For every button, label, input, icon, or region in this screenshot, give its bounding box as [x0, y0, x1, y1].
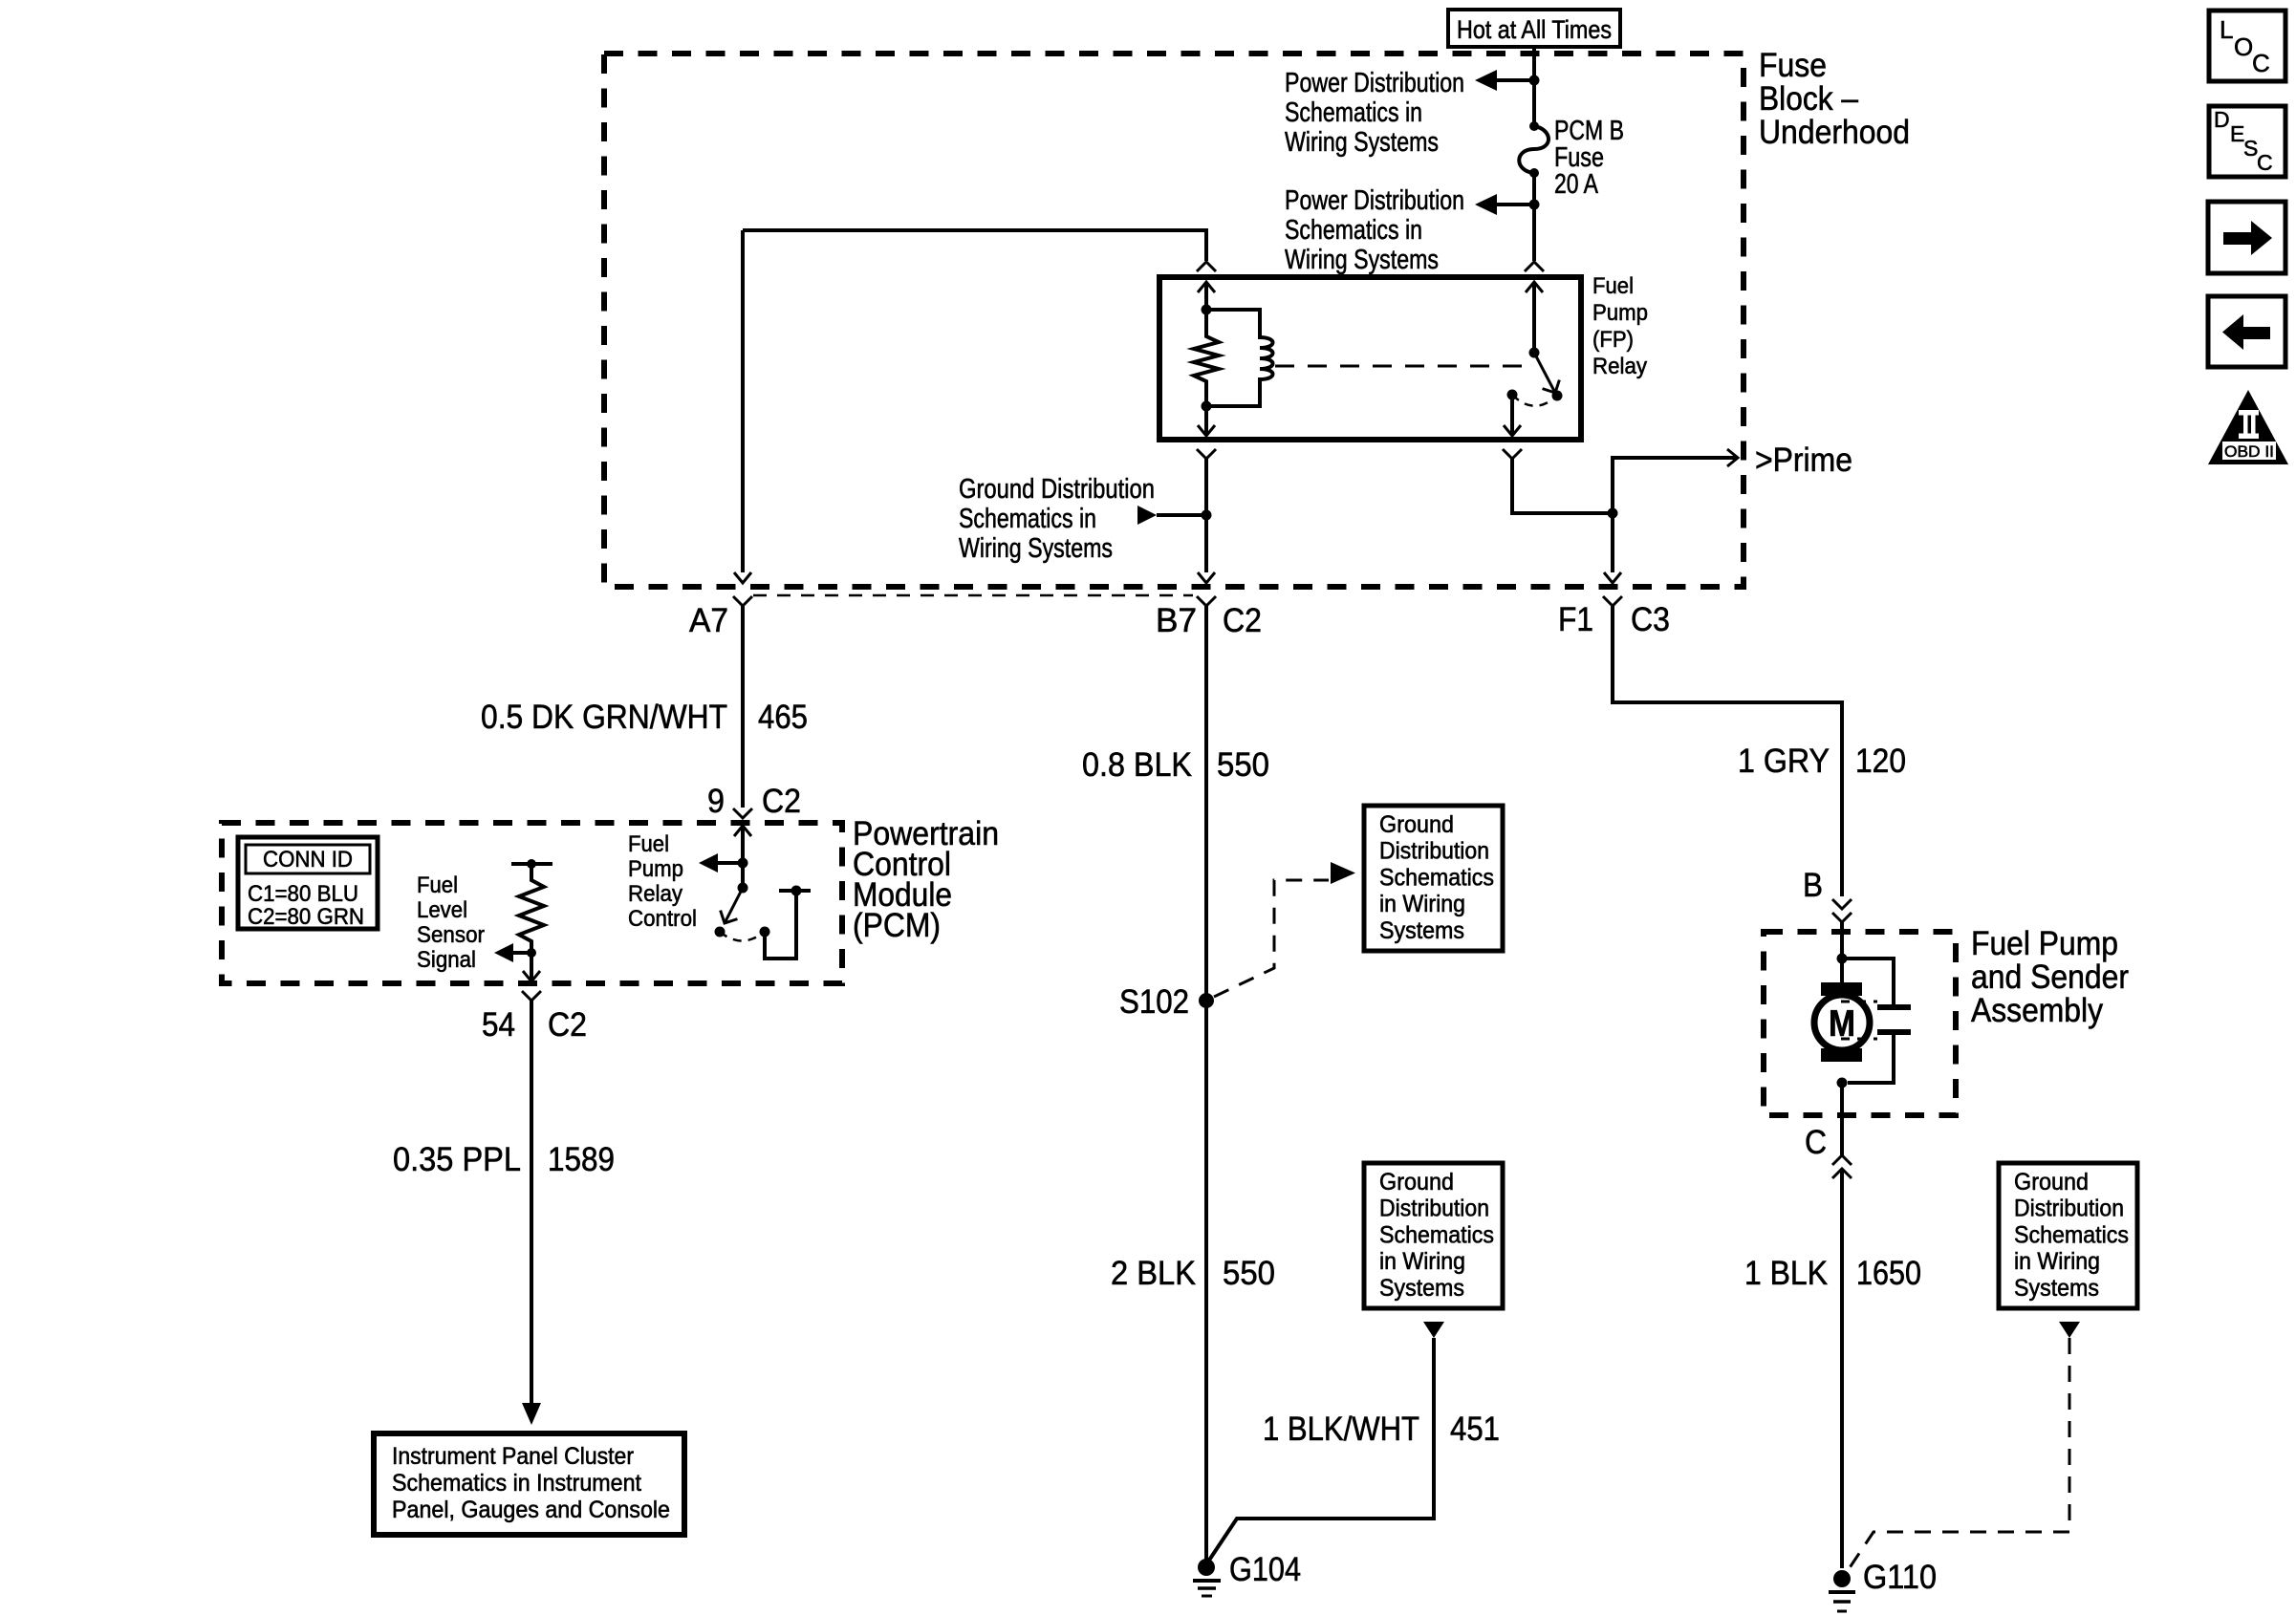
svg-text:S102: S102 — [1119, 983, 1189, 1021]
svg-text:1589: 1589 — [548, 1141, 615, 1178]
fuel level sensor top bar — [511, 859, 552, 869]
node relay contact right — [1552, 391, 1563, 401]
reference box Ground Distribution 3 — [1999, 1163, 2137, 1308]
svg-text:Fuel: Fuel — [417, 873, 458, 898]
reference box Ground Distribution 1 — [1364, 806, 1503, 951]
fuse block underhood dashed boundary — [604, 54, 1744, 587]
label Powertrain Control Module PCM — [853, 815, 999, 944]
relay contact dashed arc — [1512, 395, 1557, 406]
svg-text:C: C — [2257, 150, 2273, 175]
svg-text:(FP): (FP) — [1592, 327, 1634, 353]
wire 1650 BLK to G110 — [1840, 1169, 1844, 1568]
arrow from ground box 2 — [1423, 1322, 1444, 1338]
wire 120 GRY C3 to fuel pump — [1613, 606, 1842, 896]
fuse PCM B 20 A — [1519, 121, 1549, 178]
svg-text:C2: C2 — [762, 783, 801, 820]
wire to Fuel Level Sensor Signal label — [510, 951, 531, 955]
arrow to Power Distribution upper — [1475, 70, 1497, 91]
label Fuel Pump and Sender Assembly — [1971, 925, 2129, 1029]
svg-text:and Sender: and Sender — [1971, 959, 2129, 996]
pin 9 entry arrow inside PCM — [734, 826, 751, 888]
PCM dashed boundary — [222, 823, 842, 983]
svg-text:9: 9 — [707, 783, 725, 820]
wire prime tap — [1613, 449, 1738, 513]
wire prime junction to F1 — [1604, 513, 1621, 583]
svg-text:Signal: Signal — [417, 947, 476, 973]
svg-text:Block –: Block – — [1759, 80, 1858, 118]
svg-text:Relay: Relay — [1592, 354, 1647, 379]
wire A7 drop inside fuse block — [734, 230, 751, 583]
svg-text:Fuel: Fuel — [628, 831, 669, 857]
svg-text:550: 550 — [1223, 1255, 1275, 1292]
splice S102 — [1199, 993, 1214, 1008]
svg-text:2 BLK: 2 BLK — [1111, 1255, 1196, 1292]
connector chevron pin 54 — [522, 991, 541, 1001]
svg-text:Pump: Pump — [1592, 300, 1648, 326]
svg-text:550: 550 — [1217, 746, 1269, 784]
svg-text:A7: A7 — [689, 602, 728, 639]
dashed marks motor to capacitor — [1841, 1002, 1877, 1039]
svg-text:L: L — [2220, 15, 2233, 44]
svg-text:0.8 BLK: 0.8 BLK — [1082, 746, 1192, 784]
node fuel pump relay control — [738, 858, 748, 869]
icon OBD II triangle — [2208, 390, 2288, 464]
wire to Fuel Pump Relay Control label — [715, 861, 743, 865]
label Ground Distribution reference — [959, 474, 1155, 564]
relay coil exit arrow — [1198, 406, 1215, 436]
svg-text:0.5 DK GRN/WHT: 0.5 DK GRN/WHT — [481, 699, 727, 736]
svg-text:1 GRY: 1 GRY — [1738, 743, 1830, 780]
wire to Power Distribution upper — [1495, 78, 1534, 82]
node relay coil bottom — [1202, 401, 1212, 412]
svg-text:54: 54 — [482, 1006, 515, 1044]
svg-text:Instrument Panel Cluster: Instrument Panel Cluster — [392, 1443, 634, 1470]
svg-text:Underhood: Underhood — [1759, 114, 1910, 151]
node fuel pump motor top — [1837, 954, 1848, 964]
wire 465 to PCM — [741, 606, 745, 808]
node fuel level sensor signal — [527, 948, 536, 958]
connector A7 chevron — [733, 596, 752, 606]
svg-text:O: O — [2234, 32, 2253, 61]
value label PCM B Fuse 20 A — [1554, 116, 1624, 200]
svg-text:1 BLK/WHT: 1 BLK/WHT — [1263, 1411, 1419, 1448]
connector F1 C3 chevron — [1603, 596, 1622, 606]
svg-text:Power Distribution: Power Distribution — [1285, 68, 1464, 98]
PCM driver contact dashed arc — [720, 932, 765, 941]
svg-text:20 A: 20 A — [1554, 169, 1599, 200]
svg-text:F1: F1 — [1558, 601, 1593, 638]
svg-text:Schematics in Instrument: Schematics in Instrument — [392, 1470, 641, 1497]
relay switch common wire — [1526, 282, 1543, 353]
relay coil L1 — [1206, 310, 1273, 406]
motor M fuel pump — [1814, 982, 1870, 1062]
svg-text:1 BLK: 1 BLK — [1744, 1255, 1828, 1292]
label Fuel Pump (FP) Relay — [1592, 273, 1648, 379]
svg-text:OBD II: OBD II — [2224, 442, 2274, 461]
svg-text:G104: G104 — [1229, 1551, 1301, 1588]
relay switch blade — [1534, 353, 1564, 398]
label Power Distribution reference lower — [1285, 185, 1464, 275]
dashed leader ground box 3 to G110 — [1845, 1338, 2069, 1575]
node power junction upper — [1529, 75, 1540, 86]
svg-text:D: D — [2214, 107, 2230, 132]
svg-text:B: B — [1803, 867, 1823, 904]
svg-text:Schematics in: Schematics in — [1285, 97, 1422, 128]
arrow into ground box 1 — [1331, 862, 1355, 884]
reference box Instrument Panel Cluster — [374, 1433, 684, 1535]
PCM driver supply stub — [765, 886, 811, 959]
svg-text:Level: Level — [417, 897, 467, 923]
svg-text:(PCM): (PCM) — [853, 907, 941, 944]
svg-text:Assembly: Assembly — [1971, 992, 2103, 1029]
svg-text:C2: C2 — [548, 1006, 587, 1044]
svg-text:1650: 1650 — [1856, 1255, 1921, 1292]
connector C double chevron — [1832, 1155, 1852, 1178]
arrow from Ground Distribution reference — [1137, 506, 1157, 525]
icon DESC — [2209, 106, 2285, 177]
node power junction lower — [1529, 200, 1540, 210]
svg-text:Fuel: Fuel — [1592, 273, 1634, 299]
svg-text:Relay: Relay — [628, 881, 682, 907]
icon arrow right — [2208, 202, 2285, 273]
arrow to Fuel Level Sensor Signal label — [494, 943, 513, 962]
arrow into instrument cluster reference — [522, 1403, 541, 1425]
relay actuation dashed link — [1275, 365, 1529, 368]
connector C2 thin dashed line — [753, 594, 1193, 597]
svg-text:G110: G110 — [1863, 1559, 1937, 1596]
svg-text:Wiring Systems: Wiring Systems — [1285, 127, 1439, 158]
CONN ID table — [238, 837, 378, 930]
node PCM driver contact right — [760, 927, 770, 937]
svg-text:465: 465 — [758, 699, 808, 736]
node fuel pump motor bottom — [1837, 1078, 1848, 1088]
svg-text:Fuse: Fuse — [1759, 47, 1827, 84]
node PCM driver contact left — [715, 927, 726, 937]
wire fuse to relay — [1532, 173, 1536, 261]
svg-text:C1=80 BLU: C1=80 BLU — [248, 881, 358, 907]
svg-text:Control: Control — [628, 906, 697, 932]
capacitor C1 suppression — [1842, 959, 1911, 1083]
arrow to Fuel Pump Relay Control label — [699, 853, 718, 873]
connector B double chevron — [1832, 899, 1852, 922]
resistor fuel level sensor — [519, 864, 544, 953]
node prime junction — [1608, 508, 1618, 519]
svg-text:0.35 PPL: 0.35 PPL — [393, 1141, 521, 1178]
svg-text:C3: C3 — [1631, 601, 1670, 638]
relay K1 Fuel Pump FP Relay box — [1159, 277, 1581, 440]
label Fuel Pump Relay Control — [628, 831, 697, 932]
wire 1589 PPL — [530, 1001, 533, 1404]
connector B7 C2 chevron — [1197, 596, 1216, 606]
node relay switch pivot — [1529, 348, 1540, 358]
relay switch pin chevron — [1525, 262, 1544, 271]
svg-text:120: 120 — [1855, 743, 1906, 780]
arrow to Power Distribution lower — [1475, 194, 1497, 215]
fuel level sensor exit arrow — [523, 953, 540, 981]
ground G110 — [1829, 1570, 1855, 1611]
wire B into fuel pump assembly — [1840, 922, 1844, 983]
label Fuel Level Sensor Signal — [417, 873, 485, 973]
wire 550 BLK B7 to G104 — [1204, 606, 1208, 1566]
node PCM driver pivot — [738, 883, 748, 894]
relay output exit arrow — [1504, 395, 1521, 436]
svg-text:C2=80 GRN: C2=80 GRN — [248, 904, 364, 930]
node ground distribution tap — [1202, 510, 1212, 521]
svg-text:451: 451 — [1450, 1411, 1500, 1448]
svg-text:CONN ID: CONN ID — [263, 847, 353, 873]
svg-text:>Prime: >Prime — [1755, 442, 1852, 479]
icon arrow left — [2208, 296, 2285, 367]
relay coil output chevron — [1197, 449, 1216, 459]
svg-text:Power Distribution: Power Distribution — [1285, 185, 1464, 216]
node relay coil top — [1202, 305, 1212, 315]
ground G104 — [1193, 1559, 1221, 1596]
relay coil pin entry arrow — [1198, 282, 1215, 310]
arrow from ground box 3 — [2059, 1322, 2080, 1338]
wire bus relay coil feed — [743, 230, 1206, 261]
svg-text:Pump: Pump — [628, 856, 683, 882]
label Fuse Block Underhood — [1759, 47, 1910, 151]
svg-text:Wiring Systems: Wiring Systems — [959, 533, 1113, 564]
dashed leader S102 to ground box 1 — [1214, 880, 1329, 997]
fuel pump and sender assembly dashed boundary — [1764, 932, 1956, 1115]
PCM driver switch blade — [716, 888, 743, 928]
icon LOC — [2209, 11, 2285, 81]
relay switch output chevron — [1503, 449, 1522, 459]
svg-text:Schematics in: Schematics in — [1285, 215, 1422, 246]
relay coil pin chevron — [1197, 262, 1216, 271]
connector chevron pin 9 — [733, 808, 752, 818]
Hot at All Times flag — [1448, 10, 1620, 47]
svg-text:C2: C2 — [1223, 602, 1262, 639]
wire to Ground Distribution reference — [1157, 513, 1206, 517]
wire motor to pin C — [1840, 1083, 1844, 1155]
svg-text:Panel, Gauges and Console: Panel, Gauges and Console — [392, 1497, 670, 1523]
label Power Distribution reference upper — [1285, 68, 1464, 158]
node relay contact left — [1507, 390, 1518, 400]
wire relay switch output to prime junction — [1512, 459, 1613, 513]
svg-text:Ground Distribution: Ground Distribution — [959, 474, 1155, 505]
wire 451 BLK/WHT to G104 — [1206, 1338, 1434, 1564]
svg-text:Hot at All Times: Hot at All Times — [1457, 15, 1612, 44]
svg-text:Sensor: Sensor — [417, 922, 485, 948]
resistor R1 relay coil shunt — [1194, 310, 1219, 406]
svg-text:B7: B7 — [1156, 602, 1197, 639]
svg-text:C: C — [2252, 49, 2270, 77]
svg-text:Schematics in: Schematics in — [959, 504, 1096, 534]
svg-text:Fuel Pump: Fuel Pump — [1971, 925, 2118, 962]
wire to Power Distribution lower — [1495, 203, 1534, 206]
svg-text:Wiring Systems: Wiring Systems — [1285, 245, 1439, 275]
reference box Ground Distribution 2 — [1364, 1163, 1503, 1308]
svg-text:C: C — [1805, 1124, 1827, 1161]
wire Hot at All Times to fuse — [1532, 47, 1536, 126]
wire relay coil low side to B7 — [1198, 459, 1215, 583]
